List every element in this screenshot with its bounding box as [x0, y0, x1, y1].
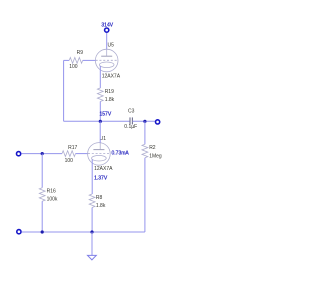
op-amp U5 [95, 42, 120, 79]
junction [143, 120, 146, 123]
svg-text:1.8k: 1.8k [96, 203, 106, 209]
wire node to U1 plate [99, 121, 101, 142]
svg-text:12AX7A: 12AX7A [102, 73, 121, 79]
svg-text:100: 100 [65, 158, 74, 164]
wire R16 top [41, 154, 43, 188]
wire port to U5 plate [106, 33, 108, 50]
svg-text:R17: R17 [68, 145, 77, 151]
svg-text:R9: R9 [77, 50, 84, 56]
svg-text:0.1µF: 0.1µF [124, 124, 137, 130]
wire input row [22, 153, 62, 155]
wire left rail [63, 60, 65, 121]
port bottom left [17, 230, 21, 234]
svg-text:R2: R2 [149, 145, 156, 151]
svg-text:R8: R8 [96, 195, 103, 201]
svg-text:R19: R19 [105, 89, 114, 95]
svg-text:C3: C3 [128, 109, 135, 115]
svg-text:314V: 314V [101, 22, 113, 28]
svg-text:1.8k: 1.8k [105, 97, 115, 103]
svg-text:100: 100 [69, 64, 78, 70]
wire C3 to output port [133, 120, 155, 122]
resistor R8 [89, 194, 106, 209]
resistor R17 [62, 145, 88, 164]
port 314V [101, 22, 113, 32]
wire ground bus [22, 231, 145, 233]
svg-text:157V: 157V [100, 111, 112, 117]
port input [17, 152, 21, 156]
resistor R9 [64, 50, 96, 70]
resistor R2 [142, 144, 162, 159]
svg-text:0.73mA: 0.73mA [112, 151, 130, 157]
transistor U1 [88, 136, 130, 181]
resistor R16 [39, 188, 58, 203]
svg-text:U5: U5 [108, 42, 115, 48]
wire R2 to bus [144, 158, 146, 232]
port output [156, 120, 160, 124]
wire U1 cathode to R8 [91, 159, 93, 194]
wire node row [64, 120, 130, 122]
svg-text:1Meg: 1Meg [149, 154, 162, 160]
junction [41, 152, 44, 155]
resistor R19 [97, 88, 114, 103]
svg-text:100k: 100k [47, 197, 58, 203]
capacitor C3 [124, 109, 137, 130]
junction [41, 230, 44, 233]
wire node to R2 [144, 121, 146, 144]
ground [88, 255, 97, 260]
junction [90, 230, 93, 233]
junction [99, 120, 102, 123]
wire R8 to bus [91, 208, 93, 233]
svg-text:12AX7A: 12AX7A [94, 166, 113, 172]
wire R19 to node [99, 102, 101, 122]
wire ground stem [91, 232, 93, 255]
svg-text:R16: R16 [47, 189, 56, 195]
wire R16 to bus [41, 201, 43, 232]
svg-text:1.37V: 1.37V [94, 175, 108, 181]
wire U5 cathode to R19 [99, 66, 101, 88]
